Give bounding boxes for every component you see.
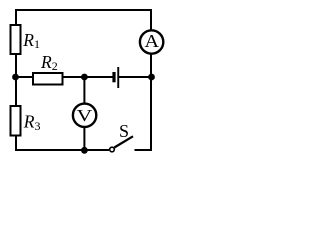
svg-text:A: A <box>145 31 160 51</box>
svg-text:R2: R2 <box>40 52 58 73</box>
wire voltmeter bottom <box>83 127 85 151</box>
wire left upper <box>15 9 17 25</box>
svg-text:S: S <box>119 121 129 141</box>
node junction left <box>12 74 19 81</box>
resistor R3 <box>11 106 21 136</box>
wire middle center <box>63 76 113 78</box>
battery B1 plate long <box>117 67 119 88</box>
node junction center <box>81 74 88 81</box>
wire top <box>15 9 151 11</box>
switch S pivot <box>110 147 115 152</box>
wire voltmeter top <box>83 77 85 104</box>
wire bottom left <box>15 149 109 151</box>
switch S lever <box>114 136 133 147</box>
wire right lower <box>150 77 152 151</box>
wire left middle <box>15 55 17 106</box>
resistor R1 <box>11 25 21 54</box>
svg-text:R3: R3 <box>23 112 41 133</box>
wire middle left <box>15 76 33 78</box>
svg-text:V: V <box>77 106 93 125</box>
voltmeter U2 circle <box>73 104 96 127</box>
wire right upper <box>150 9 152 31</box>
ammeter U1 circle <box>140 30 163 53</box>
battery B1 plate short <box>112 72 115 82</box>
node junction bottom <box>81 147 88 154</box>
wire bottom right <box>135 149 153 151</box>
wire left lower <box>15 137 17 152</box>
node junction right <box>148 74 155 81</box>
svg-text:R1: R1 <box>22 30 40 51</box>
resistor R2 <box>33 73 63 85</box>
wire right middle <box>150 54 152 78</box>
wire middle right <box>119 76 151 78</box>
